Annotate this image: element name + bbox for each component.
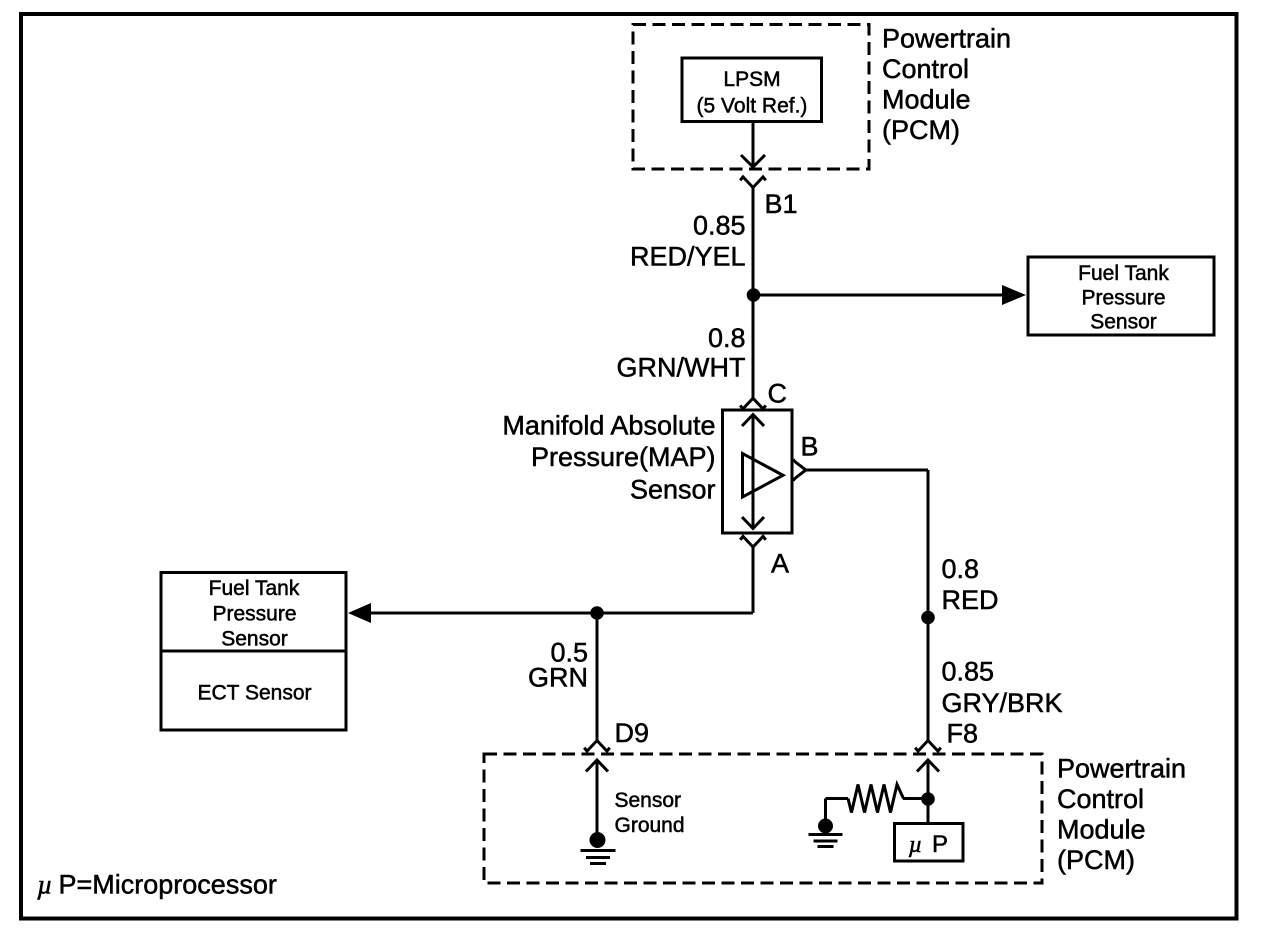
svg-text:Module: Module bbox=[1057, 815, 1146, 845]
svg-text:Powertrain: Powertrain bbox=[1057, 754, 1186, 784]
svg-text:F8: F8 bbox=[947, 719, 979, 749]
svg-text:Control: Control bbox=[882, 54, 969, 84]
svg-text:A: A bbox=[771, 549, 789, 579]
svg-text:(5 Volt Ref.): (5 Volt Ref.) bbox=[697, 95, 808, 118]
svg-text:Fuel Tank: Fuel Tank bbox=[1078, 262, 1169, 285]
svg-text:GRN: GRN bbox=[528, 663, 588, 693]
svg-text:0.8: 0.8 bbox=[708, 323, 746, 353]
svg-text:Sensor: Sensor bbox=[1090, 311, 1157, 334]
svg-text:Sensor: Sensor bbox=[630, 475, 716, 505]
svg-text:B: B bbox=[801, 432, 819, 462]
svg-text:Module: Module bbox=[882, 85, 971, 115]
svg-text:C: C bbox=[768, 379, 788, 409]
svg-text:B1: B1 bbox=[765, 189, 798, 219]
svg-text:µ: µ bbox=[909, 832, 923, 858]
svg-text:(PCM): (PCM) bbox=[1057, 845, 1135, 875]
svg-text:Pressure: Pressure bbox=[1081, 286, 1165, 309]
svg-text:P=Microprocessor: P=Microprocessor bbox=[59, 870, 277, 900]
svg-text:Sensor: Sensor bbox=[221, 627, 288, 650]
svg-text:D9: D9 bbox=[615, 718, 650, 748]
svg-text:Control: Control bbox=[1057, 784, 1144, 814]
svg-text:ECT Sensor: ECT Sensor bbox=[198, 682, 312, 705]
svg-text:(PCM): (PCM) bbox=[882, 115, 960, 145]
svg-text:RED: RED bbox=[942, 585, 999, 615]
svg-text:P: P bbox=[932, 831, 948, 858]
svg-text:µ: µ bbox=[37, 870, 53, 900]
svg-text:0.8: 0.8 bbox=[942, 554, 980, 584]
svg-text:GRN/WHT: GRN/WHT bbox=[617, 353, 746, 383]
svg-text:RED/YEL: RED/YEL bbox=[630, 241, 746, 271]
svg-text:LPSM: LPSM bbox=[723, 68, 780, 91]
svg-text:Fuel Tank: Fuel Tank bbox=[209, 577, 300, 600]
svg-text:0.85: 0.85 bbox=[942, 656, 995, 686]
svg-text:Ground: Ground bbox=[615, 814, 685, 837]
svg-text:Manifold Absolute: Manifold Absolute bbox=[502, 411, 715, 441]
svg-text:Sensor: Sensor bbox=[615, 789, 682, 812]
svg-text:Pressure: Pressure bbox=[212, 603, 296, 626]
svg-text:0.85: 0.85 bbox=[693, 211, 746, 241]
svg-text:Powertrain: Powertrain bbox=[882, 24, 1011, 54]
svg-text:Pressure(MAP): Pressure(MAP) bbox=[531, 442, 716, 472]
svg-text:GRY/BRK: GRY/BRK bbox=[942, 688, 1063, 718]
